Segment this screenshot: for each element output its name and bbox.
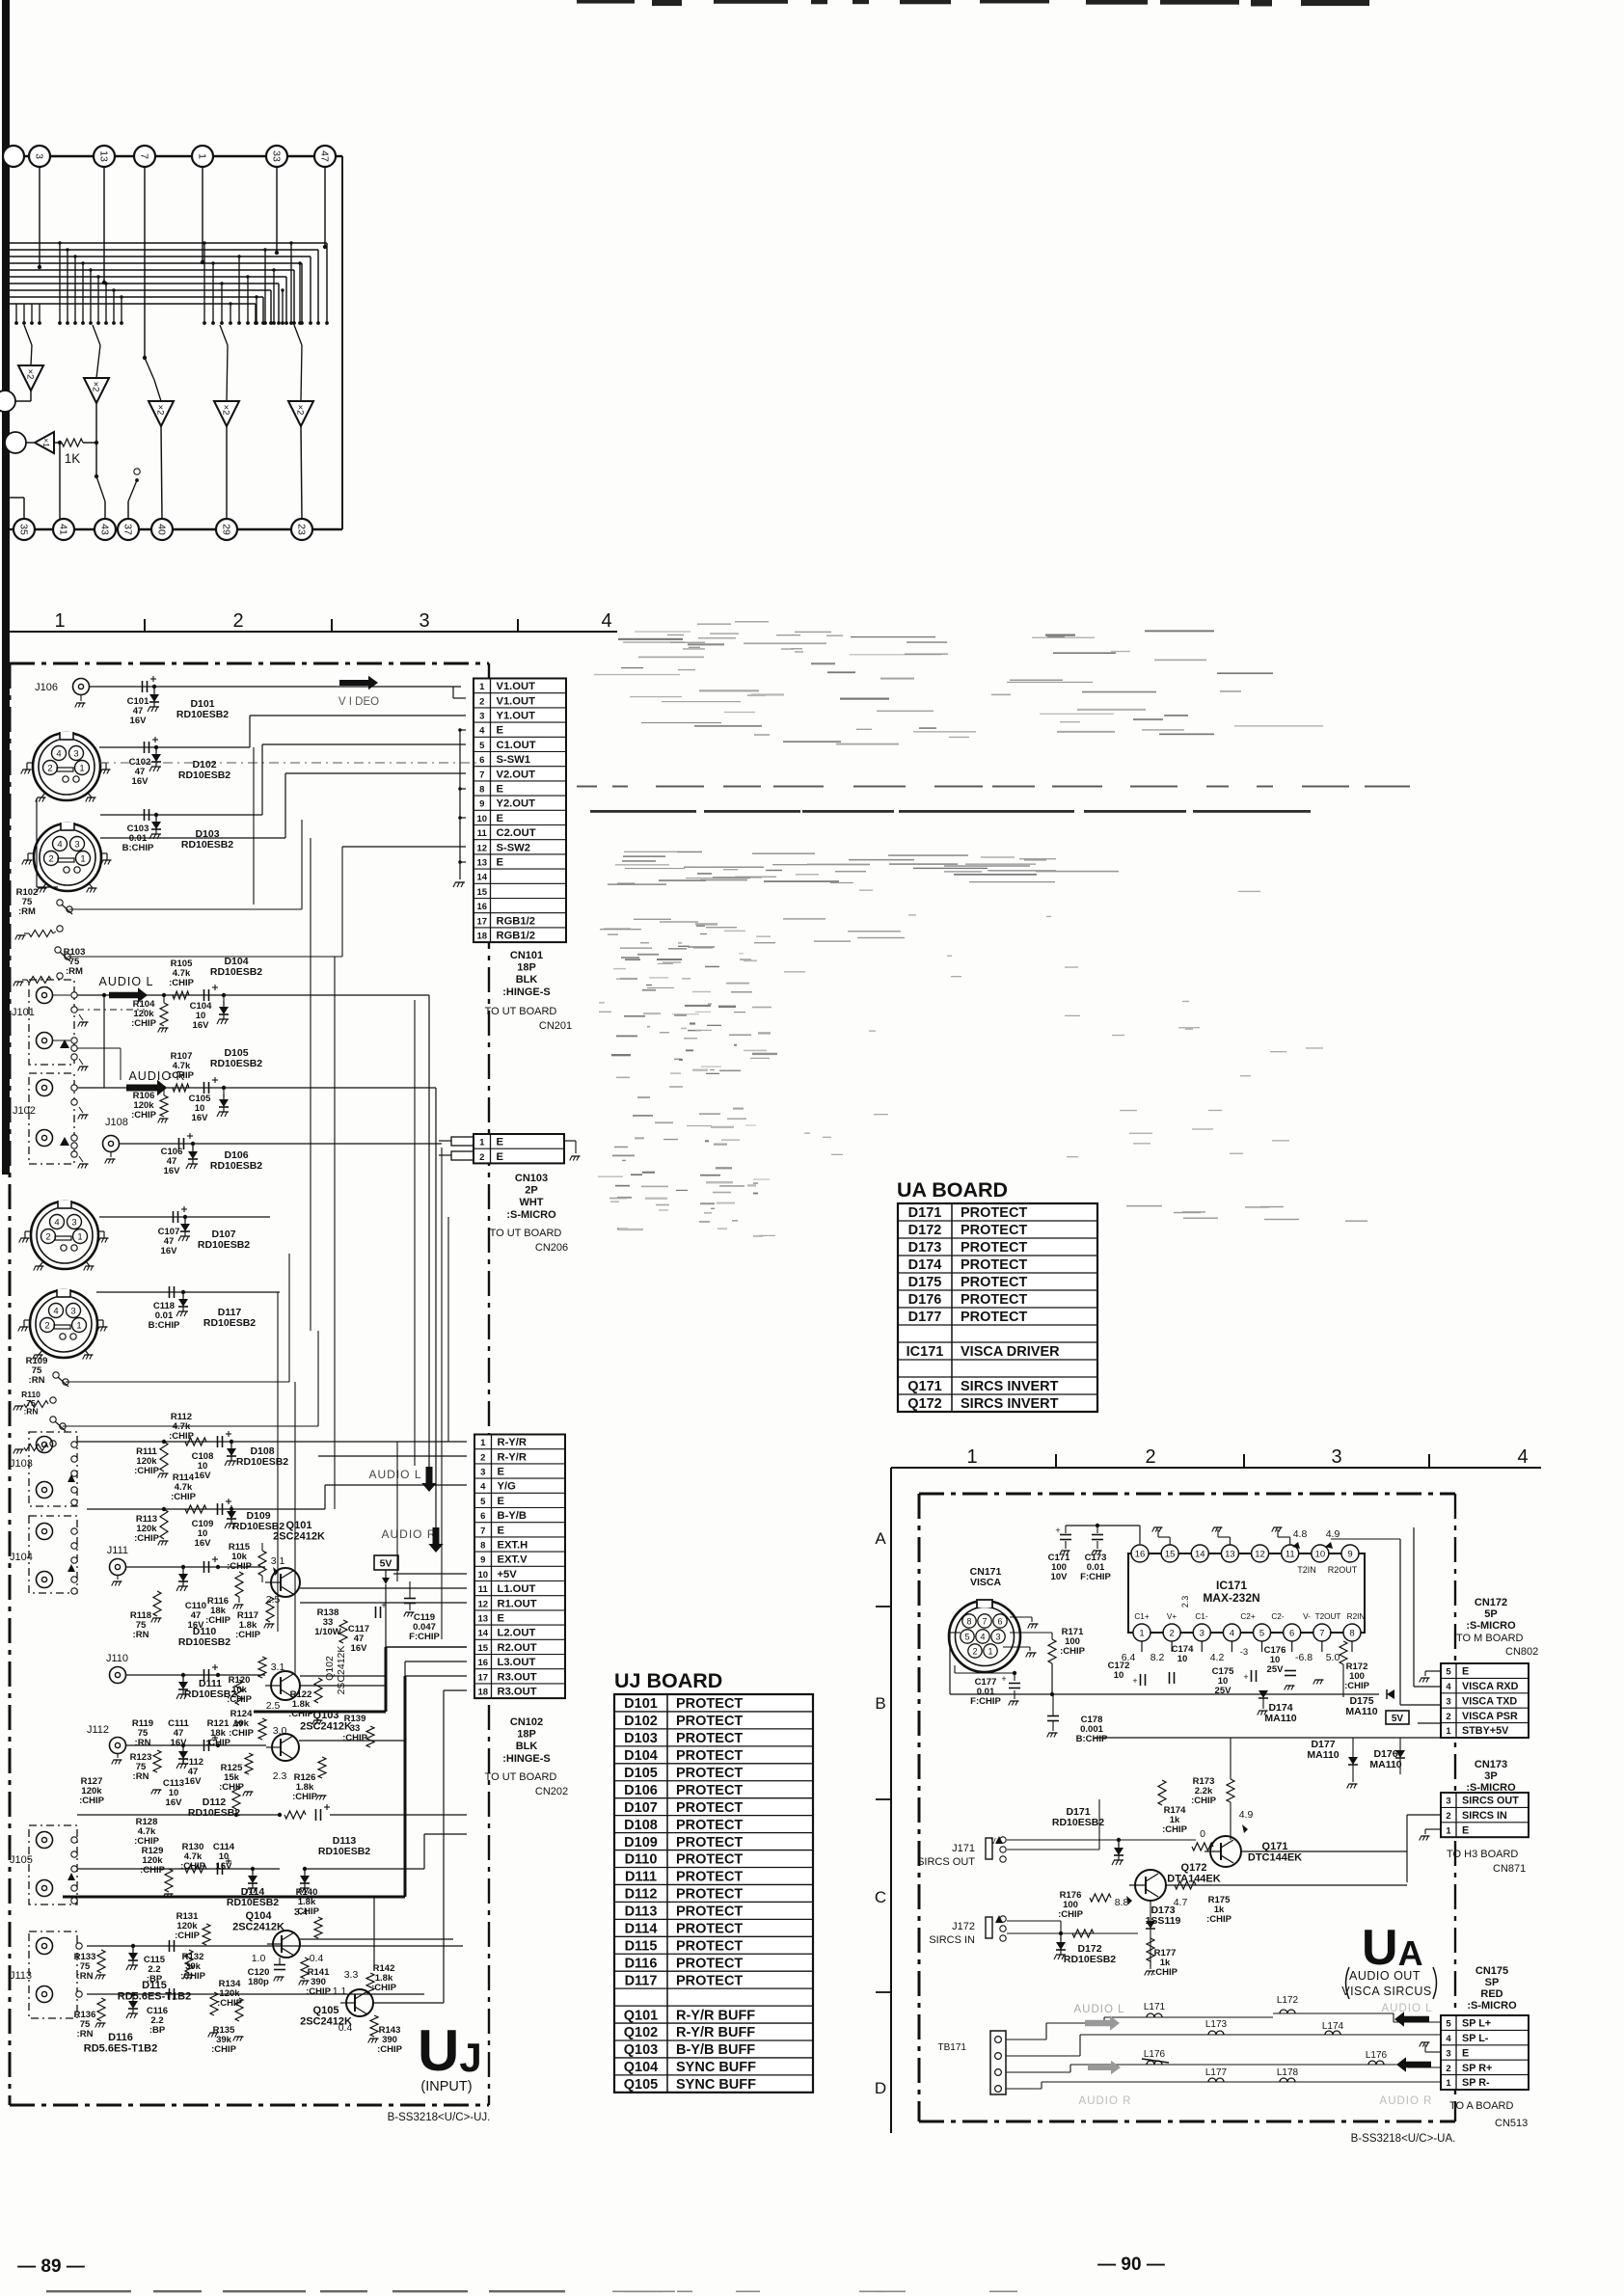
- svg-text:9: 9: [479, 799, 484, 810]
- svg-text:C1-: C1-: [1195, 1612, 1207, 1621]
- svg-text:PROTECT: PROTECT: [676, 1973, 743, 1988]
- svg-text:3: 3: [480, 1468, 485, 1478]
- svg-text:15: 15: [1165, 1550, 1176, 1560]
- svg-text::S-MICRO: :S-MICRO: [1466, 1620, 1516, 1632]
- svg-text:Q104: Q104: [624, 2060, 658, 2075]
- svg-text:R2OUT: R2OUT: [1328, 1565, 1358, 1575]
- svg-text:F:CHIP: F:CHIP: [1080, 1572, 1111, 1582]
- svg-text:Q102: Q102: [324, 1656, 336, 1681]
- svg-text:SIRCS INVERT: SIRCS INVERT: [961, 1379, 1059, 1394]
- svg-text:47: 47: [318, 150, 330, 162]
- svg-text:CN802: CN802: [1505, 1646, 1538, 1658]
- svg-text:PROTECT: PROTECT: [676, 1783, 743, 1798]
- svg-text:Q105: Q105: [624, 2077, 658, 2093]
- svg-text:16V: 16V: [161, 1246, 178, 1256]
- svg-text:Q172: Q172: [1181, 1862, 1207, 1874]
- svg-text:B-Y/B BUFF: B-Y/B BUFF: [676, 2042, 755, 2058]
- svg-text::CHIP: :CHIP: [217, 1998, 243, 2009]
- svg-text:2: 2: [48, 853, 53, 864]
- svg-text:(INPUT): (INPUT): [420, 2079, 472, 2094]
- svg-text:D102: D102: [624, 1714, 658, 1729]
- svg-text:RED: RED: [1480, 1988, 1502, 2000]
- svg-text:3: 3: [1200, 1629, 1204, 1639]
- svg-text:PROTECT: PROTECT: [676, 1766, 743, 1781]
- svg-text:16V: 16V: [166, 1797, 183, 1808]
- svg-text:4: 4: [1230, 1629, 1234, 1639]
- svg-text:E: E: [497, 1137, 504, 1148]
- svg-text:1: 1: [1446, 1726, 1451, 1737]
- svg-text:UJ BOARD: UJ BOARD: [614, 1669, 722, 1692]
- svg-text:16: 16: [1135, 1550, 1146, 1560]
- svg-text::CHIP: :CHIP: [227, 1694, 253, 1705]
- svg-text:D106: D106: [624, 1783, 658, 1798]
- svg-text:12: 12: [476, 843, 487, 853]
- svg-text:3P: 3P: [1484, 1770, 1497, 1782]
- svg-text:14: 14: [476, 873, 487, 883]
- svg-text:×2: ×2: [91, 382, 101, 392]
- svg-text:V I DEO: V I DEO: [338, 696, 379, 708]
- svg-text:Q101: Q101: [624, 2008, 658, 2023]
- svg-text:L176: L176: [1144, 2049, 1166, 2060]
- svg-text:MA110: MA110: [1369, 1759, 1401, 1770]
- svg-text:RD5.6ES-T1B2: RD5.6ES-T1B2: [84, 2042, 157, 2054]
- svg-text::CHIP: :CHIP: [306, 1986, 332, 1997]
- svg-text:B:CHIP: B:CHIP: [149, 1320, 180, 1331]
- svg-text::CHIP: :CHIP: [134, 1533, 160, 1544]
- svg-text:Q171: Q171: [1262, 1841, 1288, 1852]
- svg-text:13: 13: [97, 150, 109, 162]
- svg-text:1.0: 1.0: [252, 1953, 266, 1964]
- svg-text:VISCA RXD: VISCA RXD: [1462, 1681, 1519, 1692]
- svg-text:4: 4: [1446, 1682, 1451, 1692]
- svg-text:V: V: [990, 1837, 996, 1846]
- svg-text::CHIP: :CHIP: [131, 1018, 157, 1029]
- svg-text:WHT: WHT: [519, 1197, 543, 1208]
- svg-text:SIRCS INVERT: SIRCS INVERT: [961, 1396, 1059, 1412]
- svg-text:RD10ESB2: RD10ESB2: [198, 1239, 250, 1251]
- svg-text:VISCA SIRCUS: VISCA SIRCUS: [1341, 1985, 1432, 1998]
- svg-text:Q102: Q102: [624, 2025, 658, 2040]
- svg-text:2P: 2P: [525, 1185, 537, 1197]
- svg-text:PROTECT: PROTECT: [676, 1956, 743, 1971]
- svg-text::CHIP: :CHIP: [169, 1070, 195, 1081]
- svg-text:3.4: 3.4: [294, 1906, 309, 1918]
- svg-text::CHIP: :CHIP: [79, 1796, 105, 1806]
- svg-text:TO A BOARD: TO A BOARD: [1449, 2100, 1513, 2112]
- svg-text:SP R-: SP R-: [1462, 2077, 1490, 2089]
- svg-text:D114: D114: [625, 1922, 658, 1937]
- svg-text:BLK: BLK: [516, 974, 538, 986]
- svg-text:L2.OUT: L2.OUT: [498, 1628, 536, 1639]
- svg-text:SP L-: SP L-: [1462, 2033, 1489, 2044]
- svg-text:PROTECT: PROTECT: [676, 1714, 743, 1729]
- svg-text:4.8: 4.8: [1293, 1528, 1308, 1540]
- svg-text:L178: L178: [1277, 2067, 1299, 2078]
- svg-text:B-SS3218<U/C>-UA.: B-SS3218<U/C>-UA.: [1351, 2133, 1456, 2145]
- svg-text:R-Y/R: R-Y/R: [498, 1437, 527, 1448]
- svg-text:8: 8: [480, 1541, 485, 1552]
- svg-text:1: 1: [76, 1320, 81, 1331]
- svg-text:2.5: 2.5: [266, 1700, 281, 1712]
- svg-text:R-Y/R BUFF: R-Y/R BUFF: [676, 2025, 755, 2040]
- svg-text:1: 1: [988, 1646, 992, 1656]
- svg-text:S-SW2: S-SW2: [497, 842, 530, 853]
- svg-text:4: 4: [479, 726, 485, 737]
- svg-text:5: 5: [480, 1497, 486, 1507]
- svg-text::S-MICRO: :S-MICRO: [506, 1209, 556, 1221]
- svg-text:2SC2412K: 2SC2412K: [232, 1921, 284, 1932]
- svg-text:35: 35: [17, 524, 29, 535]
- svg-text:2SC2412K: 2SC2412K: [273, 1530, 325, 1542]
- svg-text:16V: 16V: [193, 1020, 210, 1031]
- svg-text:10: 10: [476, 814, 487, 824]
- svg-text:E: E: [1462, 1666, 1469, 1678]
- svg-text:×2: ×2: [25, 369, 36, 380]
- svg-text:8: 8: [479, 785, 484, 796]
- svg-text:+: +: [1243, 1672, 1248, 1682]
- svg-text:8.2: 8.2: [1150, 1652, 1165, 1663]
- svg-text:B: B: [875, 1694, 885, 1713]
- svg-text:11: 11: [477, 828, 488, 839]
- svg-text:R-Y/R: R-Y/R: [498, 1451, 527, 1463]
- svg-text::CHIP: :CHIP: [169, 978, 195, 988]
- svg-text:3: 3: [1446, 1796, 1450, 1807]
- svg-text:2.3: 2.3: [1180, 1596, 1190, 1608]
- svg-text:2SC2412K: 2SC2412K: [336, 1646, 347, 1695]
- svg-text:0: 0: [1200, 1828, 1205, 1840]
- svg-text:CN201: CN201: [539, 1020, 572, 1032]
- svg-text:23: 23: [295, 524, 307, 535]
- svg-text:2: 2: [1446, 1712, 1450, 1722]
- svg-text:D115: D115: [142, 1980, 167, 1991]
- svg-text::S-MICRO: :S-MICRO: [1467, 2000, 1517, 2012]
- svg-text:16: 16: [476, 902, 487, 912]
- svg-text:2.3: 2.3: [273, 1770, 287, 1782]
- svg-text:AUDIO R: AUDIO R: [1079, 2095, 1132, 2107]
- svg-text:PROTECT: PROTECT: [676, 1922, 743, 1937]
- svg-text:2: 2: [479, 696, 484, 707]
- svg-text:PROTECT: PROTECT: [961, 1240, 1027, 1256]
- svg-text:D103: D103: [624, 1731, 658, 1746]
- svg-text::CHIP: :CHIP: [134, 1466, 160, 1476]
- svg-text:18: 18: [476, 932, 487, 942]
- svg-text:D108: D108: [624, 1818, 658, 1833]
- svg-text::CHIP: :CHIP: [229, 1728, 255, 1739]
- svg-text:— 90 —: — 90 —: [1097, 2255, 1165, 2275]
- svg-text:×2: ×2: [221, 405, 231, 416]
- svg-text::CHIP: :CHIP: [288, 1709, 314, 1719]
- svg-text:0.4: 0.4: [338, 2022, 353, 2034]
- svg-text:PROTECT: PROTECT: [961, 1223, 1027, 1238]
- svg-text::CHIP: :CHIP: [1191, 1796, 1217, 1806]
- svg-text:16V: 16V: [185, 1776, 203, 1787]
- svg-text:PROTECT: PROTECT: [676, 1904, 743, 1920]
- svg-text:SP L+: SP L+: [1462, 2018, 1491, 2030]
- svg-text:T2OUT: T2OUT: [1315, 1612, 1341, 1621]
- svg-text:4: 4: [53, 1306, 58, 1316]
- svg-text:RD5.6ES-T1B2: RD5.6ES-T1B2: [118, 1990, 191, 2002]
- svg-text::RN: :RN: [77, 2029, 94, 2039]
- svg-text:J101: J101: [12, 1007, 35, 1018]
- svg-text:B-Y/B: B-Y/B: [498, 1510, 527, 1522]
- svg-text:2: 2: [972, 1646, 977, 1656]
- svg-text:L176: L176: [1366, 2050, 1388, 2061]
- svg-text:1: 1: [479, 1138, 485, 1148]
- svg-text:14: 14: [1195, 1550, 1205, 1560]
- svg-text:RD10ESB2: RD10ESB2: [318, 1846, 370, 1857]
- svg-text:29: 29: [220, 524, 231, 535]
- svg-text:10: 10: [477, 1570, 488, 1580]
- svg-text:40: 40: [155, 524, 167, 535]
- svg-text:+: +: [1132, 1676, 1137, 1686]
- svg-text:R-Y/R BUFF: R-Y/R BUFF: [676, 2008, 755, 2023]
- svg-text:6: 6: [1289, 1629, 1294, 1639]
- svg-text:PROTECT: PROTECT: [961, 1205, 1027, 1221]
- svg-text:J171: J171: [952, 1843, 975, 1854]
- svg-text:AUDIO R: AUDIO R: [381, 1527, 436, 1541]
- svg-text:RD10ESB2: RD10ESB2: [210, 1058, 262, 1069]
- svg-text::RM: :RM: [18, 906, 36, 917]
- svg-text:D177: D177: [908, 1310, 942, 1325]
- svg-text:25V: 25V: [1215, 1686, 1232, 1696]
- svg-text:D175: D175: [908, 1275, 942, 1290]
- svg-text:C2+: C2+: [1240, 1612, 1255, 1621]
- svg-text:1: 1: [480, 1438, 486, 1448]
- svg-text:L3.OUT: L3.OUT: [498, 1657, 536, 1668]
- svg-text:STBY+5V: STBY+5V: [1462, 1725, 1509, 1737]
- svg-text:4: 4: [1446, 2034, 1451, 2044]
- svg-text:PROTECT: PROTECT: [676, 1731, 743, 1746]
- svg-text:6: 6: [997, 1616, 1002, 1626]
- svg-text:B:CHIP: B:CHIP: [1076, 1734, 1108, 1744]
- svg-text:R3.OUT: R3.OUT: [498, 1671, 537, 1683]
- svg-text:R3.OUT: R3.OUT: [498, 1687, 537, 1698]
- svg-text:PROTECT: PROTECT: [961, 1257, 1027, 1273]
- svg-text:E: E: [498, 1496, 505, 1507]
- svg-text:A: A: [875, 1529, 886, 1548]
- svg-text:RD10ESB2: RD10ESB2: [188, 1807, 240, 1819]
- svg-text:SIRCS IN: SIRCS IN: [929, 1934, 975, 1946]
- svg-text:1: 1: [1446, 1825, 1451, 1836]
- svg-text:UA BOARD: UA BOARD: [897, 1178, 1008, 1202]
- svg-text:1: 1: [966, 1446, 977, 1468]
- svg-text:MA110: MA110: [1307, 1749, 1339, 1761]
- svg-text:PROTECT: PROTECT: [676, 1870, 743, 1885]
- svg-text:L1.OUT: L1.OUT: [498, 1583, 536, 1595]
- svg-text::CHIP: :CHIP: [1058, 1909, 1084, 1920]
- svg-text:RGB1/2: RGB1/2: [497, 931, 535, 942]
- svg-text:16V: 16V: [192, 1113, 209, 1123]
- svg-text:C2.OUT: C2.OUT: [497, 827, 536, 839]
- svg-text:TO UT BOARD: TO UT BOARD: [490, 1228, 562, 1239]
- svg-text::CHIP: :CHIP: [227, 1561, 253, 1572]
- svg-text:5V: 5V: [380, 1558, 392, 1570]
- svg-text:RD10ESB2: RD10ESB2: [176, 709, 229, 720]
- svg-text:3.3: 3.3: [344, 1969, 359, 1981]
- svg-text:1: 1: [196, 153, 207, 159]
- svg-text::CHIP: :CHIP: [1060, 1646, 1086, 1657]
- svg-text:D111: D111: [625, 1870, 657, 1885]
- svg-text:1: 1: [79, 763, 84, 773]
- svg-text:43: 43: [98, 524, 110, 535]
- svg-text::CHIP: :CHIP: [171, 1492, 197, 1502]
- svg-text:V1.OUT: V1.OUT: [497, 695, 536, 707]
- svg-text:4: 4: [980, 1632, 985, 1641]
- svg-text:5: 5: [1446, 2019, 1451, 2030]
- svg-text:16: 16: [477, 1658, 488, 1668]
- svg-text:F:CHIP: F:CHIP: [970, 1696, 1001, 1707]
- svg-text:VISCA PSR: VISCA PSR: [1462, 1711, 1518, 1722]
- svg-text:10: 10: [1177, 1654, 1188, 1664]
- svg-text:2: 2: [44, 1320, 49, 1331]
- svg-text:V2.OUT: V2.OUT: [497, 769, 536, 780]
- svg-text:SIRCS OUT: SIRCS OUT: [1462, 1796, 1519, 1807]
- svg-text:×1: ×1: [41, 438, 51, 447]
- svg-text:1: 1: [80, 853, 85, 864]
- svg-text:L174: L174: [1322, 2021, 1344, 2032]
- svg-text:PROTECT: PROTECT: [961, 1292, 1027, 1308]
- svg-text:RGB1/2: RGB1/2: [497, 915, 535, 927]
- svg-text:Q104: Q104: [246, 1910, 273, 1922]
- svg-text:E: E: [498, 1525, 505, 1536]
- svg-text:AUDIO OUT: AUDIO OUT: [1349, 1969, 1421, 1983]
- svg-text:16V: 16V: [130, 716, 148, 726]
- svg-text:IC171: IC171: [907, 1344, 944, 1360]
- svg-text:TO UT BOARD: TO UT BOARD: [485, 1006, 557, 1017]
- svg-text::CHIP: :CHIP: [1152, 1967, 1178, 1978]
- svg-text:3: 3: [995, 1632, 1000, 1641]
- svg-text:5: 5: [1446, 1667, 1451, 1678]
- svg-text:AUDIO R: AUDIO R: [1380, 2095, 1433, 2107]
- svg-text:13: 13: [1225, 1550, 1235, 1560]
- svg-text:D109: D109: [624, 1835, 658, 1850]
- svg-text:E: E: [1462, 1824, 1469, 1836]
- svg-text:7: 7: [479, 770, 484, 780]
- svg-text:5P: 5P: [1484, 1608, 1497, 1620]
- svg-text:RD10ESB2: RD10ESB2: [236, 1456, 288, 1468]
- svg-text:BLK: BLK: [516, 1741, 538, 1752]
- svg-text:5: 5: [479, 741, 485, 751]
- svg-text:J102: J102: [13, 1105, 36, 1117]
- svg-text:EXT.H: EXT.H: [498, 1540, 528, 1552]
- svg-text:14: 14: [477, 1629, 488, 1639]
- svg-text:4: 4: [601, 610, 611, 632]
- svg-text:7: 7: [1319, 1629, 1324, 1639]
- svg-text:10: 10: [1315, 1550, 1326, 1560]
- svg-text:9: 9: [1347, 1550, 1352, 1560]
- svg-text:SIRCS IN: SIRCS IN: [1462, 1810, 1507, 1822]
- svg-text:D176: D176: [908, 1292, 942, 1308]
- svg-text:1: 1: [479, 682, 485, 692]
- svg-text:IC171: IC171: [1216, 1579, 1247, 1592]
- svg-text::CHIP: :CHIP: [342, 1733, 368, 1743]
- svg-text:16V: 16V: [132, 776, 149, 787]
- svg-text:Q172: Q172: [907, 1396, 941, 1412]
- svg-text:11: 11: [1286, 1550, 1295, 1560]
- svg-text:Y1.OUT: Y1.OUT: [497, 711, 536, 722]
- svg-text:3: 3: [33, 153, 44, 159]
- svg-text:RD10ESB2: RD10ESB2: [1052, 1817, 1104, 1828]
- svg-text:6: 6: [480, 1511, 485, 1522]
- svg-text:CN102: CN102: [510, 1716, 543, 1728]
- svg-text:AUDIO L: AUDIO L: [368, 1468, 421, 1481]
- svg-text:D112: D112: [625, 1887, 658, 1903]
- svg-text:C: C: [875, 1888, 886, 1906]
- svg-text:4: 4: [1517, 1446, 1528, 1468]
- svg-text:4: 4: [57, 839, 62, 850]
- svg-text:2SC2412K: 2SC2412K: [300, 1720, 352, 1732]
- svg-text::RM: :RM: [66, 966, 83, 977]
- svg-text:C1+: C1+: [1134, 1612, 1149, 1621]
- svg-text:5V: 5V: [1392, 1714, 1404, 1724]
- svg-text::RN: :RN: [29, 1375, 45, 1386]
- svg-text::CHIP: :CHIP: [1206, 1914, 1232, 1925]
- svg-text:SIRCS OUT: SIRCS OUT: [917, 1856, 975, 1868]
- svg-text:15: 15: [477, 1643, 488, 1654]
- svg-text:Q105: Q105: [313, 2005, 339, 2016]
- svg-text::HINGE-S: :HINGE-S: [502, 986, 551, 998]
- svg-text::RN: :RN: [133, 1630, 149, 1640]
- svg-text:25V: 25V: [1267, 1664, 1285, 1675]
- svg-text:17: 17: [476, 916, 487, 927]
- svg-text:E: E: [498, 1613, 505, 1625]
- svg-text:-3: -3: [1240, 1647, 1248, 1658]
- svg-text:4: 4: [54, 1217, 59, 1228]
- svg-text:RD10ESB2: RD10ESB2: [1064, 1954, 1116, 1965]
- svg-text:SYNC BUFF: SYNC BUFF: [676, 2060, 756, 2075]
- svg-text:TO M BOARD: TO M BOARD: [1456, 1633, 1524, 1644]
- svg-text:AUDIO L: AUDIO L: [1381, 2003, 1432, 2014]
- svg-text:5: 5: [964, 1632, 969, 1641]
- svg-text:12: 12: [477, 1599, 488, 1609]
- svg-text:E: E: [497, 1151, 504, 1163]
- svg-text:17: 17: [477, 1672, 488, 1683]
- svg-text:L171: L171: [1144, 2002, 1166, 2012]
- svg-text:16V: 16V: [195, 1471, 212, 1481]
- svg-text:3: 3: [74, 839, 79, 850]
- svg-text:T2IN: T2IN: [1297, 1565, 1316, 1575]
- svg-text:2: 2: [1446, 1811, 1450, 1822]
- svg-text:D117: D117: [625, 1973, 658, 1988]
- svg-text:8.8: 8.8: [1115, 1897, 1129, 1908]
- svg-text:3: 3: [70, 1306, 75, 1316]
- svg-text:J110: J110: [106, 1653, 128, 1664]
- svg-text:+5V: +5V: [498, 1569, 518, 1580]
- svg-text::CHIP: :CHIP: [175, 1931, 201, 1941]
- svg-text:37: 37: [122, 524, 133, 535]
- svg-text:D171: D171: [908, 1205, 942, 1221]
- svg-text:R2.OUT: R2.OUT: [498, 1642, 537, 1654]
- svg-text:Q101: Q101: [286, 1520, 312, 1531]
- svg-text:1: 1: [1446, 2078, 1451, 2089]
- svg-text:SP: SP: [1485, 1977, 1500, 1988]
- svg-text:10: 10: [1114, 1670, 1124, 1681]
- svg-text:3.1: 3.1: [271, 1661, 285, 1673]
- svg-text:7: 7: [480, 1526, 485, 1536]
- svg-text:V1.OUT: V1.OUT: [497, 681, 536, 692]
- svg-text:AUDIO L: AUDIO L: [1073, 2004, 1124, 2015]
- svg-text:8: 8: [966, 1616, 971, 1626]
- svg-text:E: E: [497, 857, 504, 869]
- svg-text:1: 1: [1139, 1629, 1144, 1639]
- svg-text::CHIP: :CHIP: [140, 1865, 166, 1876]
- svg-text::BP: :BP: [149, 2025, 166, 2036]
- svg-text:41: 41: [57, 524, 68, 535]
- svg-text:2: 2: [480, 1452, 485, 1463]
- svg-text:B:CHIP: B:CHIP: [122, 843, 154, 853]
- svg-text:TO H3 BOARD: TO H3 BOARD: [1447, 1849, 1518, 1860]
- svg-text:CN206: CN206: [535, 1242, 568, 1254]
